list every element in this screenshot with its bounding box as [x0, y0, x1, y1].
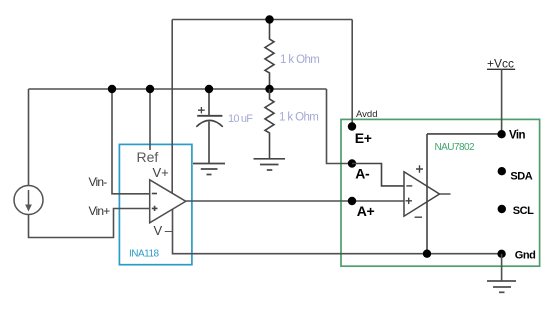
svg-text:Avdd: Avdd	[356, 109, 377, 120]
op-amp U2 NAU7802	[404, 165, 451, 217]
svg-text:E+: E+	[355, 130, 372, 146]
wire Vcc drop	[501, 69, 503, 134]
svg-text:10 uF: 10 uF	[228, 113, 253, 125]
svg-text:1 k Ohm: 1 k Ohm	[279, 112, 318, 124]
svg-text:A+: A+	[357, 203, 375, 219]
resistor R1	[265, 20, 274, 90]
wire Avdd drop	[351, 20, 353, 127]
op-amp U1 INA118	[150, 180, 186, 223]
capacitor C1	[196, 89, 223, 163]
current source I1	[14, 186, 43, 215]
wire top rail	[172, 19, 352, 21]
wire V- to ground rail	[173, 209, 502, 254]
svg-text:NAU7802: NAU7802	[435, 142, 475, 153]
svg-text:INA118: INA118	[129, 249, 160, 260]
node Ref junction	[146, 85, 154, 93]
svg-text:V –: V –	[154, 223, 173, 238]
resistor R2	[265, 89, 274, 159]
svg-text:V+: V+	[153, 165, 169, 180]
wire V+ stub	[171, 20, 173, 194]
node R1 R2 junction	[265, 85, 273, 93]
wire main rail	[29, 88, 327, 90]
svg-text:Vin+: Vin+	[89, 204, 111, 218]
wire current source bottom to Vin+	[29, 209, 150, 238]
svg-text:Vin: Vin	[509, 130, 525, 142]
svg-text:Vin-: Vin-	[89, 175, 108, 189]
wire INA output to NAU + input	[186, 200, 404, 202]
node R1 top	[265, 15, 273, 23]
wire Gnd stem	[501, 254, 503, 281]
node Gnd pin	[497, 250, 505, 258]
node Vin- junction	[108, 85, 116, 93]
node capacitor junction	[205, 85, 213, 93]
svg-text:1 k Ohm: 1 k Ohm	[280, 54, 319, 66]
wire Ref stub	[149, 89, 151, 150]
svg-text:SCL: SCL	[513, 205, 534, 217]
wire Vin feed	[427, 133, 502, 135]
svg-text:A-: A-	[355, 166, 370, 182]
svg-text:Gnd: Gnd	[515, 250, 536, 262]
svg-text:+Vcc: +Vcc	[487, 57, 514, 71]
node bypass junction	[423, 250, 431, 258]
node Vin pin	[497, 130, 505, 138]
svg-text:Ref: Ref	[137, 149, 159, 165]
wire Vin-	[112, 89, 150, 194]
ground (capacitor)	[193, 164, 225, 175]
box NAU7802	[341, 119, 540, 266]
node A- pin	[348, 159, 356, 167]
box INA118	[119, 144, 191, 264]
node A+ pin	[348, 197, 356, 205]
wire op-amp bypass	[426, 134, 428, 254]
svg-text:SDA: SDA	[510, 170, 532, 182]
wire A- branch	[327, 89, 353, 164]
ground (R2)	[254, 159, 286, 170]
wire current source top	[28, 89, 30, 186]
ground (Gnd)	[487, 281, 516, 292]
node E+ pin	[348, 122, 356, 130]
node SDA pin	[498, 167, 506, 175]
node SCL pin	[498, 205, 506, 213]
wire A- to op-amp	[352, 164, 404, 186]
